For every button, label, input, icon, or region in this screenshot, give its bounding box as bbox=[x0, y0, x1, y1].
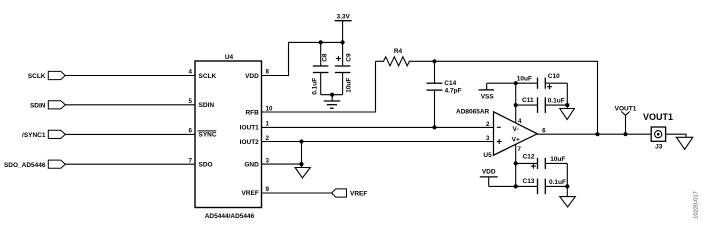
svg-text:2: 2 bbox=[266, 135, 270, 142]
ground triangle top bbox=[560, 109, 575, 120]
svg-text:VOUT1: VOUT1 bbox=[615, 105, 637, 112]
svg-text:5: 5 bbox=[189, 98, 193, 105]
capacitor C13 0.1uF bbox=[516, 178, 568, 194]
svg-text:VREF: VREF bbox=[241, 190, 258, 197]
svg-text:SDIN: SDIN bbox=[30, 103, 46, 110]
ground triangle bottom bbox=[560, 197, 576, 207]
svg-text:VDD: VDD bbox=[245, 73, 259, 80]
svg-text:GND: GND bbox=[244, 161, 259, 168]
svg-text:VOUT1: VOUT1 bbox=[643, 112, 673, 122]
svg-text:SDO_AD5446: SDO_AD5446 bbox=[4, 162, 46, 169]
svg-text:4: 4 bbox=[518, 118, 522, 125]
node ground junction bbox=[330, 93, 334, 97]
test point VOUT1 bbox=[615, 105, 637, 134]
svg-text:10uF: 10uF bbox=[550, 156, 565, 163]
wire op-amp pin4 bus bbox=[515, 83, 517, 123]
connector J3 VOUT1 bbox=[643, 112, 673, 150]
connector tag SDO_AD5446 bbox=[4, 160, 65, 169]
wire SDIN to U4 pin 5 bbox=[65, 104, 195, 106]
svg-text:SCLK: SCLK bbox=[199, 73, 217, 80]
svg-text:J3: J3 bbox=[655, 143, 663, 150]
wire IOUT2 down to ground bbox=[301, 142, 303, 168]
svg-text:C13: C13 bbox=[523, 178, 535, 185]
svg-text:VREF: VREF bbox=[350, 190, 367, 197]
capacitor C11 0.1uF bbox=[516, 97, 568, 113]
capacitor C8 0.1uF bbox=[311, 42, 328, 94]
node C9 branch bbox=[341, 40, 345, 44]
wire cap bottoms bbox=[321, 94, 343, 96]
wire op-amp output bbox=[537, 133, 651, 135]
ground earth symbol bbox=[324, 95, 340, 109]
node VSS junction bbox=[514, 81, 518, 85]
svg-text:C8: C8 bbox=[322, 53, 329, 62]
svg-text:C14: C14 bbox=[444, 80, 456, 87]
capacitor C14 4.7pF bbox=[427, 61, 462, 127]
svg-text:AD8065AR: AD8065AR bbox=[456, 108, 490, 115]
svg-text:U4: U4 bbox=[225, 54, 234, 61]
power 3.3V bbox=[335, 14, 352, 43]
wire J3 shell to ground bbox=[666, 134, 686, 137]
svg-text:VSS: VSS bbox=[481, 94, 495, 101]
svg-text:6: 6 bbox=[189, 128, 193, 135]
wire caps right bus bottom bbox=[566, 163, 568, 196]
svg-text:C11: C11 bbox=[522, 97, 534, 104]
wire IOUT1 to op-amp inverting input bbox=[262, 126, 494, 128]
node C12 left bbox=[514, 161, 518, 165]
connector tag VREF bbox=[332, 189, 368, 197]
power VSS bbox=[479, 83, 516, 100]
wire op-amp pin7 bus bbox=[515, 144, 517, 186]
svg-text:V+: V+ bbox=[512, 136, 520, 143]
svg-text:C10: C10 bbox=[548, 73, 560, 80]
svg-text:U5: U5 bbox=[483, 152, 492, 159]
wire VDD pin 8 to 3.3V rail bbox=[262, 42, 343, 75]
wire caps right bus to ground bbox=[566, 83, 568, 108]
svg-text:C9: C9 bbox=[346, 53, 353, 62]
resistor R4 bbox=[376, 48, 414, 66]
wire VREF pin 9 bbox=[262, 192, 332, 194]
ground triangle DAC bbox=[295, 168, 310, 178]
svg-text:SYNC: SYNC bbox=[199, 132, 217, 139]
node feedback junction bbox=[595, 132, 599, 136]
svg-text:7: 7 bbox=[189, 157, 193, 164]
node test point junction bbox=[623, 132, 627, 136]
svg-text:VDD: VDD bbox=[482, 169, 496, 176]
svg-text:AD5444/AD5446: AD5444/AD5446 bbox=[205, 213, 255, 220]
node C14 bottom on IOUT1 line bbox=[432, 125, 436, 129]
svg-text:2: 2 bbox=[486, 121, 490, 128]
svg-text:RFB: RFB bbox=[245, 109, 259, 116]
svg-text:6: 6 bbox=[542, 127, 546, 134]
connector tag SCLK bbox=[28, 71, 66, 80]
svg-text:7: 7 bbox=[518, 146, 522, 153]
wire SDO_AD5446 to U4 pin 7 bbox=[65, 163, 195, 165]
svg-text:1: 1 bbox=[266, 121, 270, 128]
svg-text:10220-017: 10220-017 bbox=[694, 191, 700, 219]
power VDD bbox=[480, 169, 516, 187]
svg-text:SDO: SDO bbox=[199, 162, 213, 169]
wire GND pin 3 bbox=[262, 163, 302, 165]
ground triangle J3 bbox=[676, 137, 692, 149]
svg-text:10uF: 10uF bbox=[346, 78, 353, 93]
node C14 top bbox=[432, 59, 436, 63]
svg-text:3: 3 bbox=[486, 135, 490, 142]
svg-text:C12: C12 bbox=[523, 154, 535, 161]
svg-text:0.1uF: 0.1uF bbox=[549, 179, 566, 186]
node C8 branch bbox=[319, 40, 323, 44]
svg-text:SCLK: SCLK bbox=[28, 73, 46, 80]
capacitor C9 10uF bbox=[335, 42, 353, 94]
node C13 right bbox=[565, 184, 569, 188]
node C11 right bbox=[565, 103, 569, 107]
svg-text:/SYNC1: /SYNC1 bbox=[22, 132, 46, 139]
svg-text:10uF: 10uF bbox=[517, 76, 532, 83]
svg-text:0.1uF: 0.1uF bbox=[311, 78, 318, 95]
svg-text:4.7pF: 4.7pF bbox=[445, 87, 462, 94]
connector tag /SYNC1 bbox=[22, 130, 65, 139]
svg-text:SDIN: SDIN bbox=[199, 102, 215, 109]
op-amp U5 AD8065AR bbox=[456, 108, 537, 159]
svg-text:IOUT1: IOUT1 bbox=[240, 125, 260, 132]
connector tag SDIN bbox=[30, 101, 65, 110]
svg-text:3.3V: 3.3V bbox=[337, 14, 351, 21]
capacitor C12 10uF bbox=[516, 154, 568, 170]
wire /SYNC1 to U4 pin 6 bbox=[65, 133, 195, 135]
node C13 left bbox=[514, 184, 518, 188]
node GND junction bbox=[299, 162, 303, 166]
DAC U4 AD5444/AD5446 bbox=[195, 54, 262, 220]
svg-text:IOUT2: IOUT2 bbox=[240, 139, 260, 146]
capacitor C10 10uF bbox=[516, 73, 568, 89]
svg-text:4: 4 bbox=[189, 69, 193, 76]
node C11 left bbox=[514, 103, 518, 107]
svg-text:3: 3 bbox=[266, 157, 270, 164]
wire SCLK to U4 pin 4 bbox=[65, 75, 195, 77]
svg-text:V-: V- bbox=[513, 126, 519, 133]
svg-text:0.1uF: 0.1uF bbox=[548, 97, 565, 104]
wire feedback top rail bbox=[413, 61, 597, 134]
svg-text:9: 9 bbox=[266, 186, 270, 193]
svg-text:10: 10 bbox=[266, 105, 273, 112]
svg-text:8: 8 bbox=[266, 69, 270, 76]
node IOUT2 junction bbox=[299, 139, 303, 143]
svg-text:R4: R4 bbox=[394, 48, 403, 55]
wire IOUT2 to op-amp non-inverting input bbox=[262, 141, 494, 143]
wire RFB pin 10 up to R4 bbox=[262, 61, 376, 112]
